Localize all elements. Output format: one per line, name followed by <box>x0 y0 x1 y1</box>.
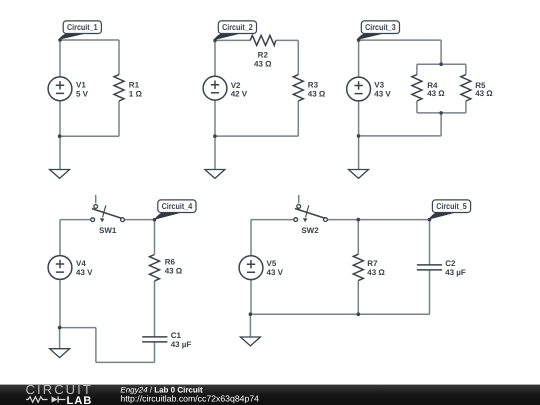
svg-text:5 V: 5 V <box>76 89 89 98</box>
svg-text:R7: R7 <box>367 259 378 268</box>
svg-text:43 Ω: 43 Ω <box>427 89 445 98</box>
svg-text:Circuit_4: Circuit_4 <box>162 201 193 211</box>
svg-text:V4: V4 <box>76 259 86 268</box>
svg-text:Circuit_5: Circuit_5 <box>436 201 467 211</box>
svg-text:R6: R6 <box>165 257 176 266</box>
svg-text:C1: C1 <box>171 331 182 340</box>
svg-text:V2: V2 <box>231 81 241 90</box>
svg-text:R2: R2 <box>258 50 269 59</box>
svg-text:SW1: SW1 <box>99 226 117 235</box>
svg-text:1 Ω: 1 Ω <box>129 90 143 99</box>
svg-text:43 V: 43 V <box>267 268 284 277</box>
svg-text:43 µF: 43 µF <box>445 268 466 277</box>
svg-text:43 Ω: 43 Ω <box>165 267 183 276</box>
svg-text:43 Ω: 43 Ω <box>475 89 493 98</box>
svg-text:43 Ω: 43 Ω <box>367 268 385 277</box>
svg-text:43 V: 43 V <box>76 268 93 277</box>
svg-text:V5: V5 <box>267 259 277 268</box>
svg-text:R1: R1 <box>129 80 140 89</box>
svg-text:LAB: LAB <box>67 395 93 405</box>
svg-text:V1: V1 <box>76 80 86 89</box>
svg-text:http://circuitlab.com/cc72x63q: http://circuitlab.com/cc72x63q84p74 <box>120 394 259 404</box>
svg-text:Circuit_2: Circuit_2 <box>222 22 253 32</box>
svg-text:Circuit_3: Circuit_3 <box>365 22 396 32</box>
svg-text:V3: V3 <box>374 80 384 89</box>
svg-text:43 Ω: 43 Ω <box>308 90 326 99</box>
svg-text:R3: R3 <box>308 80 319 89</box>
svg-text:43 V: 43 V <box>374 90 391 99</box>
svg-text:42 V: 42 V <box>231 90 248 99</box>
svg-text:43 Ω: 43 Ω <box>254 59 272 68</box>
svg-text:Circuit_1: Circuit_1 <box>67 22 98 32</box>
svg-text:C2: C2 <box>445 259 456 268</box>
svg-text:SW2: SW2 <box>301 226 319 235</box>
svg-text:43 µF: 43 µF <box>171 340 192 349</box>
